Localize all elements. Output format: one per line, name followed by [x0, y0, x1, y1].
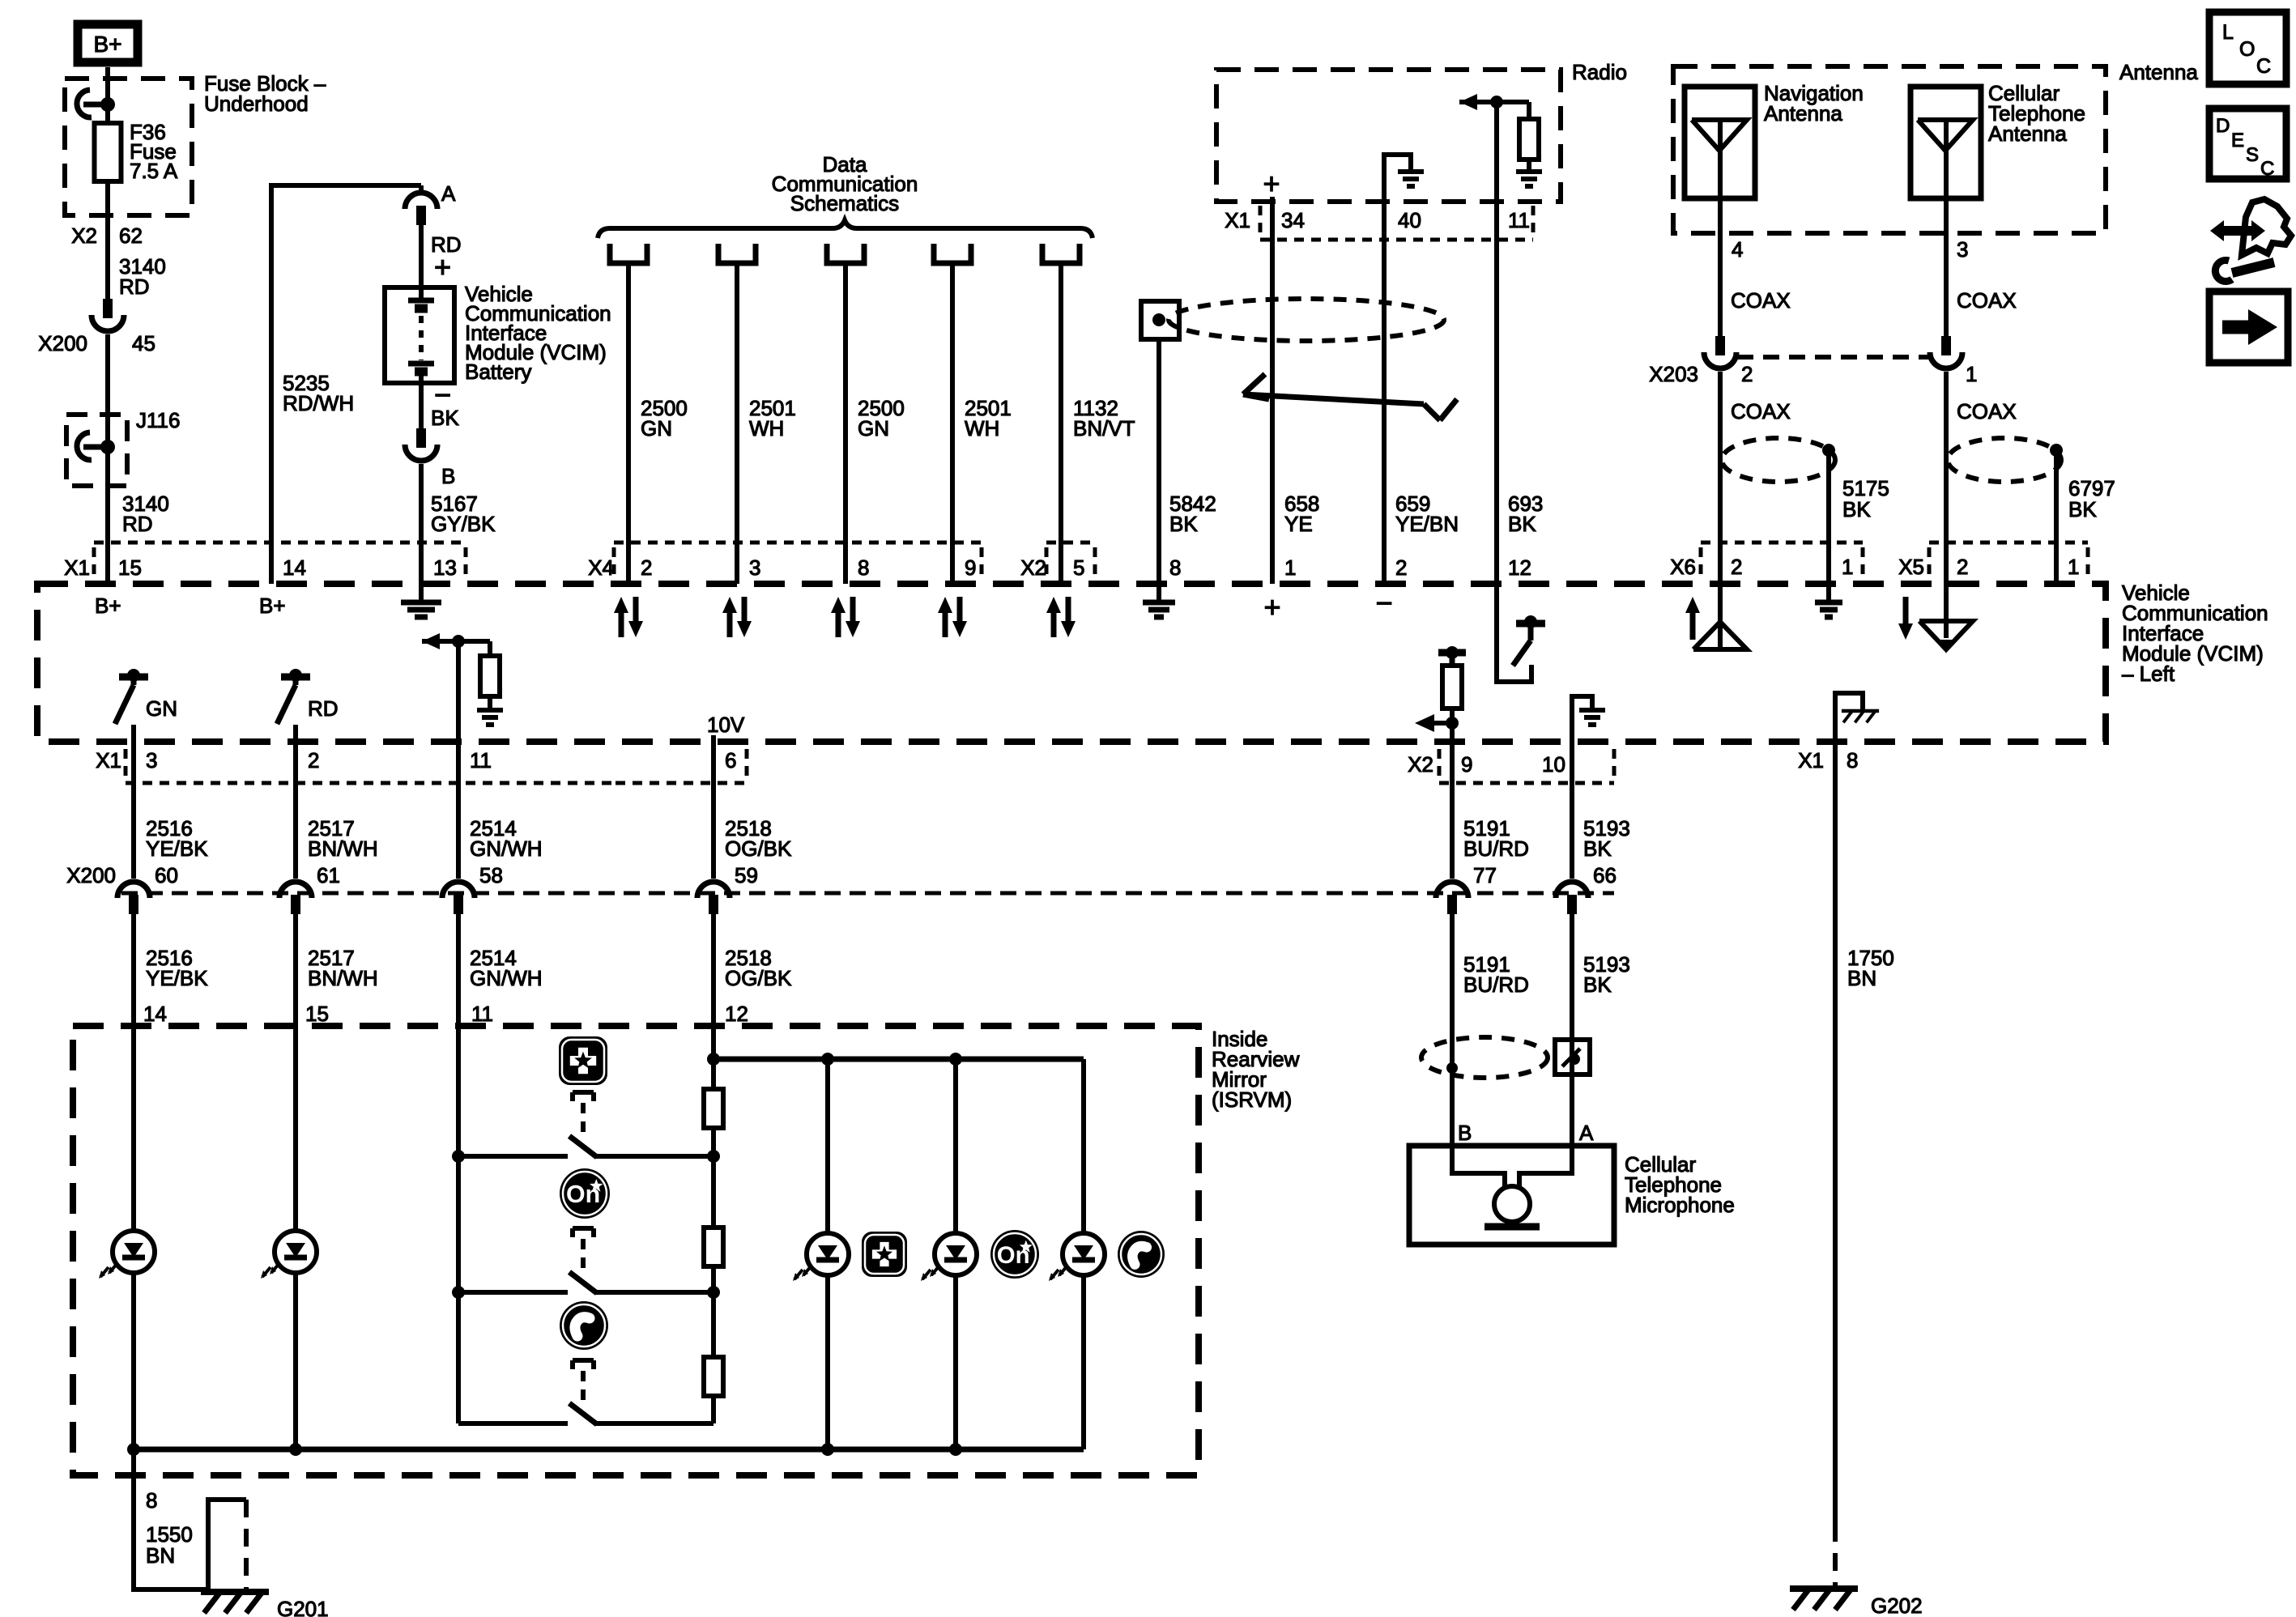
- antenna dashed box: [1673, 66, 2106, 233]
- wire battery - to B: [419, 383, 424, 430]
- svg-text:B: B: [1458, 1121, 1472, 1145]
- svg-text:GN: GN: [146, 696, 177, 721]
- wire 693 BK radio pin 11 to X2-12: [1494, 102, 1499, 584]
- wire 5175 BK shield to X6-1: [1826, 450, 1831, 584]
- svg-text:5: 5: [1073, 555, 1084, 580]
- svg-text:1: 1: [1966, 362, 1977, 386]
- svg-text:1: 1: [1842, 555, 1853, 579]
- wire B to VCIM X1-13: [419, 464, 424, 584]
- radio internal ground pin 40: [1384, 155, 1424, 202]
- svg-text:15: 15: [118, 555, 142, 580]
- svg-text:– Left: – Left: [2122, 662, 2175, 686]
- wire 2516 YE/BK to ISRVM-14: [131, 913, 136, 1026]
- wire labels 5842 BK / 658 YE / 659 YE-BN / 693 BK: [1169, 491, 1543, 536]
- VCIM top pin dotted line X1: [94, 543, 466, 577]
- svg-text:Antenna: Antenna: [2119, 60, 2198, 84]
- pin labels X2 9 10: [1408, 752, 1565, 777]
- wire label 2514 GN/WH: [470, 816, 543, 861]
- wire ISRVM pin 12 to bus: [711, 1026, 716, 1059]
- svg-text:YE: YE: [1284, 512, 1313, 536]
- actuator dashed link 3: [573, 1360, 594, 1401]
- wire 5193 BK X2-10 to X200-66: [1570, 742, 1574, 879]
- wire label 2514 GN/WH (2): [470, 946, 543, 990]
- pin labels X1 3 2 11 6: [96, 748, 736, 772]
- shield drain dot mic: [1446, 1062, 1458, 1074]
- VCIM bottom pin dotted box pin 6: [616, 749, 747, 783]
- svg-text:J116: J116: [136, 408, 180, 432]
- svg-text:YE/BK: YE/BK: [146, 966, 208, 990]
- wire ISRVM pin 14 column: [131, 1026, 136, 1449]
- VCIM bottom pin dotted box X2 9-10: [1439, 749, 1614, 783]
- radio pin dotted box: [1260, 206, 1533, 240]
- wire 2501 WH: [950, 263, 955, 584]
- VCIM internal ground (X6-1): [1815, 584, 1842, 617]
- svg-text:RD/WH: RD/WH: [283, 391, 354, 415]
- switch row 2: [452, 1272, 720, 1299]
- off-page connector data wire 1: [610, 244, 647, 263]
- VCIM internal ground (pin 8 radio): [1143, 584, 1175, 617]
- shield termination box mic: [1555, 1040, 1590, 1074]
- wire 5191 BU/RD to microphone B: [1450, 913, 1455, 1146]
- connector X200 pin 66: [1556, 863, 1617, 914]
- svg-text:D: D: [2216, 115, 2230, 137]
- svg-text:2: 2: [1395, 555, 1407, 580]
- svg-text:3: 3: [749, 555, 760, 580]
- wire label 5191 BU/RD (2): [1463, 952, 1529, 997]
- svg-text:66: 66: [1593, 863, 1617, 887]
- svg-text:X200: X200: [38, 331, 87, 355]
- svg-text:GN/WH: GN/WH: [470, 836, 543, 861]
- wire 6797 BK shield to X5-1: [2054, 450, 2059, 584]
- wire J116 to VCIM X1-15: [105, 447, 110, 584]
- wire label 5175 BK: [1842, 476, 1889, 521]
- svg-text:12: 12: [1508, 555, 1531, 580]
- resistor chain R1: [704, 1059, 723, 1128]
- svg-text:RD: RD: [122, 512, 153, 536]
- svg-text:RD: RD: [308, 696, 339, 721]
- VCIM internal down arrow (X5-2): [1898, 597, 1913, 640]
- actuator dashed link 2: [573, 1228, 594, 1270]
- ground G202: [1790, 1589, 1923, 1617]
- cellular telephone antenna box: [1910, 87, 1981, 198]
- svg-text:OG/BK: OG/BK: [725, 836, 792, 861]
- svg-text:B+: B+: [95, 594, 121, 618]
- pin labels X6 2 1 X5 2 1: [1670, 555, 2079, 579]
- wire 5193 BK to microphone A: [1570, 913, 1574, 1146]
- wire 659 YE/BN radio pin 40 to X2-2: [1382, 202, 1387, 584]
- battery cell symbol: [408, 287, 434, 383]
- wire 2518 OG/BK to ISRVM-12: [711, 913, 716, 1026]
- svg-text:YE/BK: YE/BK: [146, 836, 208, 861]
- VCIM internal switch RD (pin 2): [277, 669, 339, 724]
- svg-text:(ISRVM): (ISRVM): [1212, 1087, 1292, 1112]
- svg-text:11: 11: [471, 1002, 493, 1026]
- coax wire nav antenna pin 4: [1718, 198, 1723, 336]
- icon forward arrow box: [2209, 291, 2288, 363]
- svg-text:−: −: [1375, 586, 1392, 619]
- svg-text:2: 2: [1957, 555, 1968, 579]
- off-page connector data wire 5: [1042, 244, 1080, 263]
- power symbol B+ box: [78, 24, 138, 62]
- svg-text:BN: BN: [146, 1543, 175, 1568]
- svg-text:GN: GN: [858, 416, 889, 440]
- VCIM top pin dotted line X2: [1046, 543, 1095, 577]
- svg-text:X1: X1: [1798, 748, 1824, 772]
- wire label 5167 GY/BK: [431, 491, 496, 536]
- shield drain dot cell: [2050, 444, 2063, 457]
- LED indicator 5: [1049, 1233, 1105, 1281]
- wire label 2516 YE/BK (2): [146, 946, 208, 990]
- svg-text:GN/WH: GN/WH: [470, 966, 543, 990]
- svg-text:BK: BK: [1508, 512, 1536, 536]
- ground G201: [201, 1592, 329, 1617]
- switch row 1: [452, 1136, 720, 1163]
- VCIM top pin dotted line X5: [1929, 543, 2088, 577]
- svg-text:YE/BN: YE/BN: [1395, 512, 1459, 536]
- wire 1750 BN X1-8 to G202: [1833, 742, 1838, 1524]
- wire label 2518 OG/BK: [725, 816, 792, 861]
- label Vehicle Communication Interface Module (VCIM) Battery: [465, 282, 611, 384]
- VCIM bottom pin dotted line X1 3-2-11: [126, 749, 616, 783]
- svg-text:X4: X4: [588, 555, 614, 580]
- wire label 2517 BN/WH: [308, 816, 378, 861]
- off-page connector data wire 3: [827, 244, 864, 263]
- svg-text:8: 8: [858, 555, 869, 580]
- wire 2500 GN: [843, 263, 848, 584]
- svg-text:12: 12: [725, 1002, 748, 1026]
- connector X200 pin 58: [442, 863, 503, 914]
- svg-text:C: C: [2260, 158, 2274, 180]
- VCIM serial data arrows at 1044: [831, 597, 860, 637]
- wire 1750 BN dashed tail: [1833, 1524, 1838, 1586]
- svg-text:GN: GN: [641, 416, 672, 440]
- svg-text:L: L: [2222, 21, 2234, 44]
- svg-text:A: A: [1579, 1121, 1594, 1145]
- icon medical button: [559, 1036, 607, 1085]
- connector X200 pin 59: [697, 863, 758, 914]
- VCIM battery box: [385, 287, 454, 383]
- VCIM internal ground (pin 13): [401, 584, 441, 617]
- ISRVM bottom bus: [127, 1443, 1084, 1456]
- svg-text:X2: X2: [1020, 555, 1046, 580]
- svg-text:B+: B+: [259, 594, 286, 618]
- radio pin labels X1 34 40 11: [1225, 208, 1530, 232]
- svg-text:8: 8: [1169, 555, 1181, 580]
- connector X200 pin 61: [279, 863, 340, 914]
- VCIM serial data arrows at 1176: [938, 597, 967, 637]
- label Cellular Telephone Microphone: [1625, 1152, 1735, 1217]
- off-page connector data wire 2: [718, 244, 756, 263]
- VCIM internal cell antenna symbol: [1919, 584, 1973, 653]
- switch row 3: [458, 1396, 714, 1424]
- navigation antenna box: [1685, 87, 1755, 198]
- svg-text:40: 40: [1398, 208, 1421, 232]
- coax wire X203-2 to X6-2: [1718, 372, 1723, 584]
- wire label 1550 BN: [146, 1522, 193, 1568]
- icon medical (LED 3): [862, 1232, 907, 1277]
- label Vehicle Communication Interface Module (VCIM) - Left: [2122, 581, 2268, 686]
- VCIM top pin dotted line X4: [614, 543, 982, 577]
- shield ellipse nav coax: [1722, 438, 1835, 482]
- svg-text:1: 1: [2068, 555, 2079, 579]
- svg-text:E: E: [2231, 130, 2244, 151]
- icon DESC box: [2209, 109, 2286, 180]
- svg-text:3: 3: [1957, 237, 1968, 262]
- harness dashed line X203: [1737, 355, 1929, 360]
- wire 1132 BN/VT: [1059, 263, 1063, 584]
- wire ISRVM pin 15 column: [293, 1026, 298, 1449]
- svg-text:58: 58: [479, 863, 503, 887]
- VCIM internal nav antenna symbol: [1693, 584, 1747, 649]
- VCIM internal switch (pin 12): [1497, 584, 1545, 682]
- cellular telephone microphone box: [1409, 1146, 1614, 1245]
- svg-text:Underhood: Underhood: [204, 91, 309, 116]
- svg-text:BK: BK: [2068, 497, 2097, 521]
- VCIM serial data arrows at 1310: [1046, 597, 1076, 637]
- VCIM internal resistor with arrow (X2-9): [1415, 646, 1466, 742]
- svg-text:10: 10: [1542, 752, 1565, 777]
- wire label 5193 BK (2): [1583, 952, 1630, 997]
- svg-text:G202: G202: [1871, 1594, 1923, 1617]
- wire label 5235 RD/WH: [283, 371, 354, 415]
- icon LOC box: [2209, 12, 2286, 84]
- label Cellular Telephone Antenna: [1988, 81, 2085, 146]
- svg-text:BK: BK: [431, 406, 459, 430]
- wire ISRVM pin 8 to G201: [134, 1449, 246, 1589]
- ISRVM top bus: [707, 1053, 1084, 1066]
- svg-text:59: 59: [735, 863, 758, 887]
- svg-text:B: B: [441, 464, 455, 488]
- icon OnStar (LED 4): [990, 1230, 1039, 1279]
- resistor chain R2: [704, 1228, 723, 1266]
- svg-text:2: 2: [1731, 555, 1742, 579]
- fuse F36: [95, 123, 121, 181]
- svg-text:1: 1: [1284, 555, 1296, 580]
- wire label 5193 BK: [1583, 816, 1630, 861]
- off-page connector data wire 4: [934, 244, 971, 263]
- svg-text:BK: BK: [1842, 497, 1871, 521]
- svg-text:13: 13: [433, 555, 457, 580]
- label X203 2 1: [1649, 362, 1977, 386]
- VCIM serial data arrows at 910: [722, 597, 752, 637]
- svg-text:4: 4: [1732, 237, 1743, 262]
- svg-text:6: 6: [725, 748, 736, 772]
- shield drain dot nav: [1822, 444, 1835, 457]
- resistor chain R3: [704, 1357, 723, 1396]
- svg-text:62: 62: [119, 223, 143, 248]
- icon phone (LED 5): [1118, 1231, 1165, 1278]
- label F36 Fuse 7.5 A: [130, 120, 178, 183]
- svg-text:Antenna: Antenna: [1988, 121, 2067, 146]
- wire 5842 BK shield to X2-8: [1157, 339, 1161, 584]
- svg-text:Microphone: Microphone: [1625, 1193, 1735, 1217]
- radio internal resistor to ground: [1459, 94, 1542, 186]
- svg-text:X1: X1: [1225, 208, 1250, 232]
- VCIM internal switch GN (pin 3): [115, 669, 177, 724]
- svg-text:11: 11: [1508, 208, 1530, 232]
- VCIM top pin dotted line X6: [1701, 543, 1863, 577]
- wire B+ to fuse: [105, 67, 110, 123]
- svg-text:O: O: [2239, 38, 2255, 61]
- svg-text:2: 2: [1741, 362, 1753, 386]
- pin label X2 62: [71, 223, 143, 248]
- svg-text:X2: X2: [71, 223, 97, 248]
- microphone pin labels B A: [1458, 1121, 1594, 1145]
- svg-text:X2: X2: [1408, 752, 1433, 777]
- wire 2514 GN/WH X1-11 to X200-58: [456, 641, 461, 879]
- wire A to battery +: [419, 223, 424, 291]
- pin labels X1 15 14 13: [64, 555, 457, 580]
- icon diagnostic arrows and wrench: [2210, 199, 2291, 281]
- wire label 3140 RD (3): [122, 491, 169, 536]
- svg-text:34: 34: [1281, 208, 1305, 232]
- shield ellipse radio: [1169, 299, 1444, 341]
- terminal clip at fuse block feed: [77, 90, 115, 117]
- svg-text:S: S: [2246, 144, 2259, 166]
- connector X200 pin 45: [38, 299, 155, 355]
- label Inside Rearview Mirror (ISRVM): [1212, 1027, 1300, 1112]
- svg-text:9: 9: [965, 555, 976, 580]
- wire label 2500 GN: [641, 396, 688, 440]
- svg-text:COAX: COAX: [1731, 399, 1791, 423]
- svg-text:45: 45: [132, 331, 155, 355]
- label Fuse Block - Underhood: [204, 71, 326, 116]
- svg-text:BN/WH: BN/WH: [308, 836, 378, 861]
- VCIM serial data arrows at 776: [614, 597, 643, 637]
- svg-text:B+: B+: [93, 32, 121, 57]
- label Navigation Antenna: [1764, 81, 1864, 126]
- LED indicator 2: [261, 1231, 317, 1279]
- icon OnStar button: [560, 1168, 610, 1219]
- svg-text:COAX: COAX: [1957, 399, 2017, 423]
- wire label 6797 BK: [2068, 476, 2115, 521]
- connector A: [405, 181, 456, 225]
- coax wire X203-1 to X5-2: [1944, 372, 1949, 584]
- microphone symbol: [1452, 1146, 1572, 1227]
- wire label 2501 WH: [965, 396, 1012, 440]
- svg-text:77: 77: [1473, 863, 1497, 887]
- svg-text:7.5 A: 7.5 A: [130, 159, 178, 183]
- svg-text:BK: BK: [1169, 512, 1198, 536]
- connector B: [405, 428, 455, 488]
- svg-text:8: 8: [1847, 748, 1858, 772]
- LED indicator 4: [921, 1233, 977, 1281]
- svg-text:COAX: COAX: [1731, 288, 1791, 313]
- svg-text:Antenna: Antenna: [1764, 101, 1842, 126]
- svg-text:Schematics: Schematics: [790, 191, 899, 215]
- LED column 1 wire: [825, 1059, 830, 1449]
- wire 2500 GN: [626, 263, 631, 584]
- wire label 1132 BN/VT: [1073, 396, 1135, 440]
- svg-text:COAX: COAX: [1957, 288, 2017, 313]
- shield ellipse microphone: [1421, 1037, 1548, 1078]
- LED column 2 wire: [953, 1059, 958, 1449]
- wire 2514 GN/WH to ISRVM-11: [456, 913, 461, 1026]
- svg-text:X200: X200: [66, 863, 116, 887]
- wire 2517 BN/WH to ISRVM-15: [293, 913, 298, 1026]
- svg-text:+: +: [1263, 167, 1280, 200]
- svg-text:BK: BK: [1583, 836, 1612, 861]
- svg-text:WH: WH: [965, 416, 999, 440]
- pin label X1 8: [1798, 748, 1858, 772]
- wire 658 YE radio pin 34 to X2-1: [1270, 197, 1275, 584]
- X200 harness dotted line: [121, 891, 1614, 896]
- wire label 2516 YE/BK: [146, 816, 208, 861]
- svg-text:10V: 10V: [707, 713, 745, 737]
- connector X200 pin 60: [117, 863, 178, 914]
- svg-text:C: C: [2256, 55, 2271, 78]
- svg-text:15: 15: [305, 1002, 329, 1026]
- LED indicator 3: [793, 1233, 849, 1281]
- wire X200-45 to J116: [105, 334, 110, 447]
- svg-text:11: 11: [470, 748, 492, 772]
- svg-text:BU/RD: BU/RD: [1463, 972, 1529, 997]
- svg-text:+: +: [434, 250, 451, 283]
- svg-text:Battery: Battery: [465, 360, 531, 384]
- connector X203 pin 2: [1715, 336, 1725, 355]
- svg-text:9: 9: [1461, 752, 1472, 777]
- svg-text:2: 2: [308, 748, 319, 772]
- wire label 2501 WH: [749, 396, 796, 440]
- LED column 3 wire: [1081, 1059, 1086, 1449]
- svg-text:BN: BN: [1847, 966, 1876, 990]
- svg-text:RD: RD: [119, 274, 150, 299]
- svg-text:14: 14: [283, 555, 306, 580]
- svg-text:WH: WH: [749, 416, 784, 440]
- wire ISRVM pin 11 column: [456, 1026, 461, 1156]
- inside rearview mirror dashed box: [73, 1026, 1199, 1475]
- svg-text:8: 8: [146, 1488, 157, 1513]
- label Data Communication Schematics: [772, 152, 918, 215]
- connector X203 pin 1: [1941, 336, 1951, 355]
- actuator dashed link 1: [573, 1092, 594, 1134]
- svg-text:BN/VT: BN/VT: [1073, 416, 1135, 440]
- wire label 2517 BN/WH (2): [308, 946, 378, 990]
- svg-text:X1: X1: [64, 555, 90, 580]
- VCIM internal resistor to ground (pin 11): [422, 633, 503, 725]
- svg-text:X1: X1: [96, 748, 121, 772]
- VCIM internal up arrow (X6-2): [1685, 597, 1700, 640]
- splice J116 dashed box: [66, 415, 127, 486]
- connector X200 pin 77: [1436, 863, 1497, 914]
- wire label 2500 GN: [858, 396, 905, 440]
- terminal clip at J116: [77, 432, 115, 460]
- svg-text:Radio: Radio: [1572, 60, 1627, 84]
- wire chain R2-R3: [711, 1266, 716, 1357]
- wire label 2518 OG/BK (2): [725, 946, 792, 990]
- wire fuse to X2-62: [105, 181, 110, 300]
- brace data communication: [598, 220, 1093, 238]
- wire 5191 BU/RD X2-9 to X200-77: [1450, 742, 1455, 879]
- svg-text:X5: X5: [1898, 555, 1924, 579]
- svg-text:+: +: [1263, 590, 1280, 623]
- svg-text:BK: BK: [1583, 972, 1612, 997]
- wire chain R1-R2: [711, 1128, 716, 1228]
- wire label 3140 RD: [119, 254, 166, 299]
- wire 5235 RD/WH from A to X1-14: [271, 185, 421, 584]
- fuse block - underhood dashed box: [65, 79, 192, 215]
- shield ellipse cell coax: [1948, 438, 2061, 482]
- svg-text:BU/RD: BU/RD: [1463, 836, 1529, 861]
- svg-text:BN/WH: BN/WH: [308, 966, 378, 990]
- twisted pair arrows: [1243, 374, 1457, 420]
- wire label 5191 BU/RD: [1463, 816, 1529, 861]
- radio dashed box: [1216, 70, 1561, 202]
- svg-text:60: 60: [155, 863, 178, 887]
- svg-text:OG/BK: OG/BK: [725, 966, 792, 990]
- VCIM internal ground (X2-10): [1572, 696, 1605, 742]
- LED indicator 1: [99, 1231, 155, 1279]
